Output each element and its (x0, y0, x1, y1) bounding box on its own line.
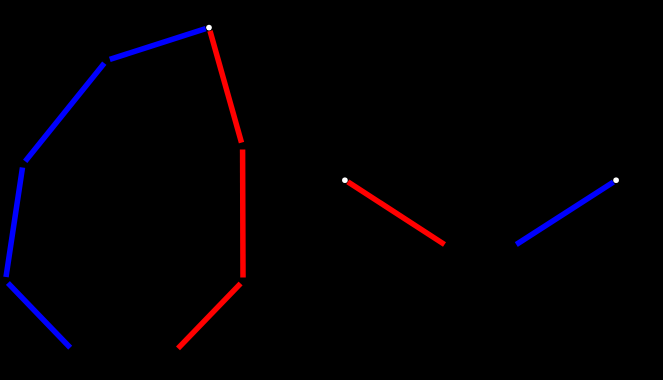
red edge H-G (vertical right side) (240, 150, 246, 278)
node P1 marker (white dot, left end of right red segment) (342, 177, 348, 183)
blue edge B-C (upper-left diagonal) (25, 63, 104, 161)
blue segment P3-P4 (right group, ascending) (516, 182, 613, 244)
red segment P1-P2 (right group, descending) (348, 182, 445, 245)
blue edge A-B (top-left diagonal of left polygon) (110, 29, 206, 60)
node A marker (white dot, top of polygon) (206, 25, 212, 31)
red edge A-H (upper-right side of left polygon) (210, 31, 242, 143)
red edge G-F (bottom-right diagonal) (178, 284, 241, 349)
blue edge D-E (bottom-left diagonal) (8, 283, 70, 348)
node P4 marker (white dot, right end of right blue segment) (613, 177, 619, 183)
blue edge C-D (left steep side) (6, 168, 23, 278)
